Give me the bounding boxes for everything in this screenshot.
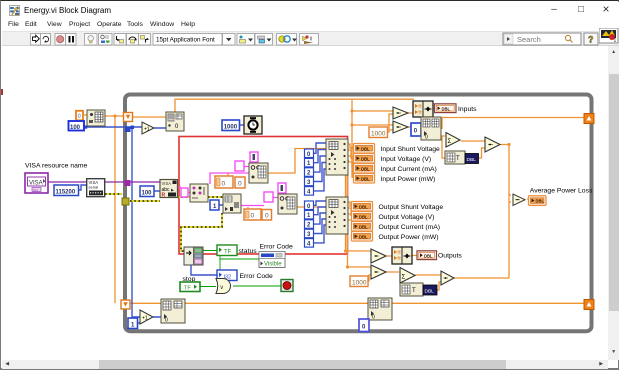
svg-text:115200: 115200 bbox=[56, 189, 76, 195]
svg-text:I/O: I/O bbox=[33, 188, 38, 192]
svg-text:Inputs: Inputs bbox=[458, 106, 477, 113]
svg-text:0: 0 bbox=[238, 181, 242, 188]
svg-text:0: 0 bbox=[265, 213, 269, 220]
svg-text:+1: +1 bbox=[144, 127, 150, 133]
svg-text:0: 0 bbox=[251, 213, 255, 220]
svg-text:status: status bbox=[239, 248, 258, 255]
svg-text:0: 0 bbox=[165, 318, 168, 324]
svg-text:0: 0 bbox=[372, 315, 375, 321]
svg-text:DBL: DBL bbox=[359, 224, 368, 229]
svg-text:Input Shunt Voltage: Input Shunt Voltage bbox=[381, 146, 441, 153]
svg-text:Error Code: Error Code bbox=[260, 244, 293, 251]
svg-text:T: T bbox=[456, 156, 460, 162]
svg-text:∨: ∨ bbox=[220, 285, 224, 291]
svg-text:Input Current (mA): Input Current (mA) bbox=[381, 166, 437, 173]
svg-text:DBL: DBL bbox=[361, 166, 370, 171]
svg-text:DBL: DBL bbox=[424, 253, 433, 258]
svg-text:Outputs: Outputs bbox=[438, 253, 462, 260]
svg-text:Output Power (mW): Output Power (mW) bbox=[379, 234, 439, 241]
svg-text:Output Current (mA): Output Current (mA) bbox=[379, 224, 441, 231]
svg-text:DBL: DBL bbox=[361, 156, 370, 161]
svg-text:Output Shunt Voltage: Output Shunt Voltage bbox=[379, 204, 444, 211]
svg-text:1000: 1000 bbox=[224, 124, 238, 130]
svg-text:DBL: DBL bbox=[442, 106, 451, 111]
svg-text:TF: TF bbox=[184, 286, 191, 292]
svg-text:Σ: Σ bbox=[402, 274, 406, 280]
svg-text:DBL: DBL bbox=[359, 214, 368, 219]
svg-text:VISA: VISA bbox=[29, 181, 43, 187]
svg-text:Σ: Σ bbox=[448, 139, 452, 145]
svg-text:T: T bbox=[412, 288, 416, 294]
svg-text:Average Power Loss: Average Power Loss bbox=[530, 188, 593, 195]
svg-text:1000: 1000 bbox=[352, 279, 367, 286]
svg-text:DBL: DBL bbox=[425, 289, 435, 295]
svg-text:DBL: DBL bbox=[361, 146, 370, 151]
svg-text:0: 0 bbox=[222, 181, 226, 188]
svg-text:DBL: DBL bbox=[361, 176, 370, 181]
svg-text:VISA resource name: VISA resource name bbox=[25, 163, 88, 170]
svg-text:0: 0 bbox=[425, 135, 428, 141]
svg-text:100: 100 bbox=[142, 190, 153, 196]
svg-text:DBL: DBL bbox=[536, 199, 545, 204]
svg-text:Error Code: Error Code bbox=[240, 273, 273, 280]
svg-text:Visible: Visible bbox=[264, 262, 282, 268]
svg-text:DBL: DBL bbox=[359, 234, 368, 239]
svg-text:VISA: VISA bbox=[162, 181, 172, 186]
svg-text:Output Voltage (V): Output Voltage (V) bbox=[379, 214, 435, 221]
svg-text:TF: TF bbox=[224, 250, 232, 256]
svg-text:DBL: DBL bbox=[359, 204, 368, 209]
svg-text:1000: 1000 bbox=[371, 130, 386, 137]
svg-text:Input Power (mW): Input Power (mW) bbox=[381, 176, 436, 183]
svg-text:R: R bbox=[162, 193, 166, 199]
svg-text:100: 100 bbox=[70, 125, 81, 131]
svg-text:Input Voltage (V): Input Voltage (V) bbox=[381, 156, 432, 163]
svg-text:serial: serial bbox=[89, 185, 99, 190]
svg-text:DBL: DBL bbox=[467, 157, 477, 163]
svg-text:+1: +1 bbox=[142, 316, 148, 322]
